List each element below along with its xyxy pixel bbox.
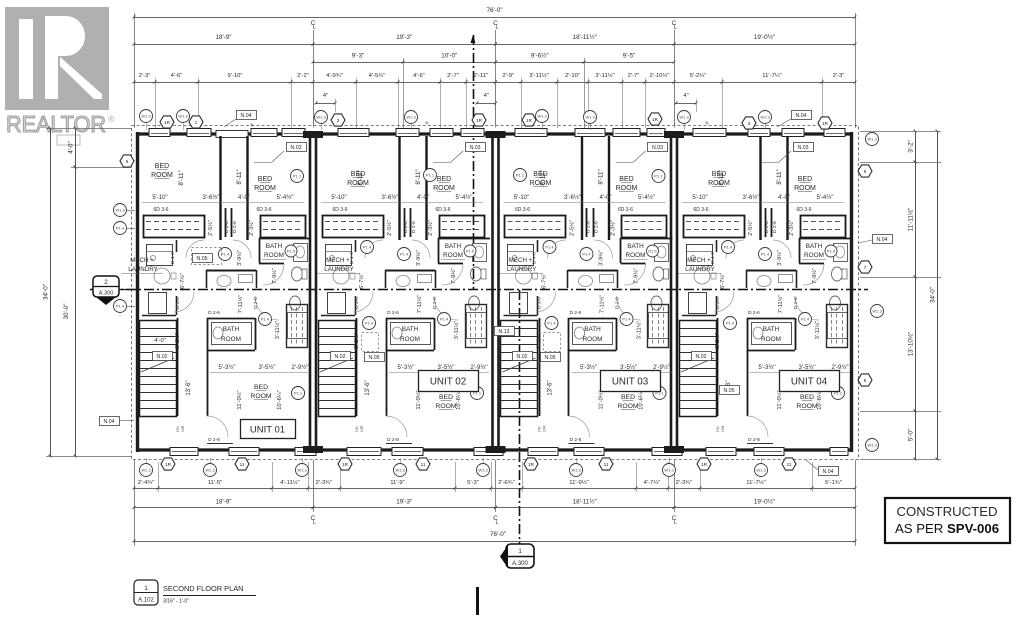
toilet: [292, 267, 303, 281]
svg-text:N.05: N.05: [724, 388, 735, 394]
marker W1.3: [296, 464, 309, 477]
svg-text:3'-11½": 3'-11½": [274, 321, 281, 340]
window: [251, 129, 277, 137]
svg-text:BATH: BATH: [445, 243, 462, 250]
svg-text:2'-5½": 2'-5½": [207, 220, 214, 236]
svg-text:2'-3½": 2'-3½": [610, 220, 617, 236]
marker W1.3: [871, 305, 884, 318]
dimension 5'-1&#190;&quot;: [812, 488, 855, 490]
svg-text:19'-3": 19'-3": [396, 34, 412, 41]
dimension 4'-7&#188;&quot;: [636, 488, 668, 490]
door arcs: [595, 240, 613, 258]
svg-text:3'-2½": 3'-2½": [714, 333, 721, 349]
svg-text:19'-3": 19'-3": [396, 499, 412, 506]
svg-text:2'-3½": 2'-3½": [427, 220, 434, 236]
svg-text:N.04: N.04: [823, 469, 834, 475]
wall top bath: [621, 238, 673, 240]
marker 6: [858, 374, 872, 386]
svg-text:UNIT 03: UNIT 03: [612, 377, 649, 388]
wall mech: [716, 240, 718, 252]
svg-text:P1.4: P1.4: [547, 321, 556, 326]
svg-text:6'-7½": 6'-7½": [179, 273, 186, 289]
svg-text:ROOM: ROOM: [443, 252, 463, 259]
svg-text:6D 3-6: 6D 3-6: [435, 207, 450, 213]
svg-text:5'-10": 5'-10": [514, 195, 529, 201]
marker 11: [416, 458, 430, 470]
wall hall/bedroom: [386, 318, 388, 416]
stairs: [319, 321, 356, 417]
svg-text:1: 1: [195, 120, 198, 125]
svg-text:8'-11": 8'-11": [415, 169, 422, 184]
marker W1.3: [177, 110, 190, 123]
svg-text:N.05: N.05: [369, 355, 380, 361]
svg-text:13'-10½": 13'-10½": [907, 332, 915, 357]
window: [647, 129, 665, 137]
window: [613, 129, 640, 137]
svg-text:2'-7": 2'-7": [447, 73, 459, 79]
svg-text:P1.1: P1.1: [516, 173, 525, 178]
svg-text:9'-3": 9'-3": [352, 53, 365, 60]
svg-text:D 3-0: D 3-0: [175, 297, 181, 309]
dimension 5'-3&quot;: [455, 488, 491, 490]
svg-text:P1.4: P1.4: [116, 304, 125, 309]
svg-text:N.03: N.03: [652, 145, 663, 151]
marker P1.1: [514, 169, 527, 182]
door arcs: [773, 240, 791, 258]
svg-text:P1.4: P1.4: [801, 317, 810, 322]
svg-text:W1.3: W1.3: [867, 137, 877, 142]
svg-text:9'-5": 9'-5": [623, 53, 636, 60]
door frames: [404, 208, 406, 237]
linen closet: [827, 305, 848, 348]
outer wall right: [850, 132, 853, 452]
svg-text:P1.5: P1.5: [466, 249, 475, 254]
marker P1.1: [652, 170, 665, 183]
marker W1.3: [759, 111, 772, 124]
svg-text:ROOM: ROOM: [616, 185, 638, 192]
svg-text:D 2-6: D 2-6: [208, 310, 220, 316]
svg-text:P1.4: P1.4: [582, 252, 591, 257]
svg-text:W1.3: W1.3: [297, 468, 307, 473]
marker 1R: [522, 114, 536, 126]
marker 11: [782, 458, 796, 470]
dimension 19'-3&quot;: [313, 507, 496, 509]
svg-text:P1.4: P1.4: [726, 321, 735, 326]
marker 1R: [648, 113, 662, 125]
svg-text:10'-6¼": 10'-6¼": [277, 390, 283, 410]
svg-text:4'-0": 4'-0": [417, 195, 429, 201]
dimension 2'-10&quot;: [557, 82, 588, 84]
tub: [828, 313, 848, 339]
party wall: [670, 132, 673, 452]
svg-text:BATH: BATH: [223, 326, 240, 333]
dimension 34'-0&quot;: [937, 131, 939, 459]
marker W1.3: [315, 111, 328, 124]
svg-text:CONSTRUCTED: CONSTRUCTED: [896, 504, 997, 519]
window: [295, 448, 316, 456]
svg-text:2'-6¾": 2'-6¾": [498, 480, 515, 486]
svg-text:D 2-6: D 2-6: [570, 310, 582, 316]
dimension 4'-6&quot;: [155, 82, 198, 84]
wall lower bath: [569, 318, 617, 320]
marker 1R: [524, 458, 538, 470]
closet right: [801, 216, 846, 238]
marker 11: [599, 458, 613, 470]
svg-text:2'-7": 2'-7": [628, 73, 640, 79]
svg-text:8'-11": 8'-11": [357, 170, 364, 185]
dimension 3'-2&quot;: [915, 131, 917, 162]
svg-text:W1.3: W1.3: [679, 115, 689, 120]
svg-text:P1.4: P1.4: [761, 252, 770, 257]
svg-text:W1.3: W1.3: [316, 115, 326, 120]
section line 1-A.300 vertical: [473, 35, 475, 290]
svg-text:D 3-0: D 3-0: [715, 297, 721, 309]
window: [461, 129, 484, 137]
svg-text:11'-11½": 11'-11½": [907, 208, 915, 232]
svg-text:P1.4: P1.4: [365, 321, 374, 326]
svg-text:2'-4¾": 2'-4¾": [138, 480, 155, 486]
svg-text:6D 3-6: 6D 3-6: [515, 207, 530, 213]
door frames: [586, 208, 588, 237]
marker 1: [189, 116, 203, 128]
svg-text:ROOM: ROOM: [400, 336, 420, 343]
svg-text:W1.3: W1.3: [585, 115, 595, 120]
svg-text:D 2-6: D 2-6: [594, 221, 600, 233]
svg-text:BED: BED: [798, 176, 812, 183]
svg-text:N.05: N.05: [197, 256, 208, 262]
svg-text:REALTOR: REALTOR: [6, 111, 106, 137]
svg-text:11'-9": 11'-9": [390, 480, 405, 486]
window: [338, 129, 369, 137]
marker 7: [858, 261, 872, 273]
svg-text:5'-3": 5'-3": [467, 480, 479, 486]
svg-text:6D 3-6: 6D 3-6: [693, 207, 708, 213]
dimension 2'-3&#190;&quot;: [668, 488, 700, 490]
dimension 2'-9&quot;: [496, 82, 522, 84]
svg-text:BED: BED: [254, 384, 268, 391]
wall top bath: [259, 238, 311, 240]
svg-text:3'-9½": 3'-9½": [415, 250, 422, 266]
svg-text:3'-6½": 3'-6½": [564, 194, 581, 201]
svg-text:3'-11½": 3'-11½": [636, 321, 643, 340]
svg-text:N.13: N.13: [499, 329, 510, 335]
dimension 18'-11&#189;&quot;: [496, 507, 675, 509]
svg-text:DN: DN: [355, 426, 359, 432]
svg-text:7'-9½": 7'-9½": [271, 268, 278, 284]
svg-text:L: L: [674, 25, 677, 31]
window: [282, 129, 305, 137]
label N.03: [648, 143, 668, 152]
svg-text:W1.3: W1.3: [571, 468, 581, 473]
section line 2-A.300 horizontal: [90, 289, 868, 291]
svg-text:4'-0": 4'-0": [238, 195, 250, 201]
svg-text:N.02: N.02: [157, 354, 168, 360]
window: [187, 129, 211, 137]
svg-text:2'-3½": 2'-3½": [788, 220, 795, 236]
svg-text:1: 1: [144, 585, 148, 592]
dimension 76'-0&quot;: [134, 17, 855, 19]
wall hall bath: [206, 270, 256, 272]
dimension 18'-9&quot;: [134, 507, 313, 509]
svg-text:W1.3: W1.3: [867, 443, 877, 448]
marker W1.3: [394, 464, 407, 477]
svg-text:11: 11: [604, 462, 609, 467]
svg-text:16R: 16R: [543, 425, 547, 432]
marker P1.4: [724, 317, 737, 330]
svg-text:AS PER SPV-006: AS PER SPV-006: [895, 521, 999, 536]
window: [706, 448, 736, 456]
tub: [288, 313, 308, 339]
svg-text:D 2-6: D 2-6: [793, 297, 799, 309]
bath sink counter: [834, 244, 848, 262]
wall mech: [176, 240, 178, 252]
party wall: [309, 132, 312, 452]
svg-text:3'-6½": 3'-6½": [203, 194, 220, 201]
window: [693, 129, 726, 137]
window: [748, 129, 770, 137]
marker P1.4: [398, 248, 411, 261]
marker P1.1: [653, 387, 666, 400]
closet left: [505, 216, 566, 238]
dimension 9'-6&#189;&quot;: [496, 62, 585, 64]
marker P1.4: [219, 248, 232, 261]
dimension 11'-7&#188;&quot;: [722, 82, 822, 84]
svg-text:5'-4½": 5'-4½": [638, 194, 655, 201]
svg-text:5'-4½": 5'-4½": [456, 194, 473, 201]
svg-text:5'-2¼": 5'-2¼": [690, 73, 707, 79]
window: [824, 129, 845, 137]
svg-text:1R: 1R: [165, 462, 172, 467]
window: [347, 448, 381, 456]
marker P1.1: [832, 387, 845, 400]
svg-text:10'-6¼": 10'-6¼": [817, 390, 823, 410]
svg-text:5'-4½": 5'-4½": [817, 194, 834, 201]
svg-text:5'-10": 5'-10": [692, 195, 707, 201]
svg-text:P1.4: P1.4: [622, 317, 631, 322]
svg-text:8'-11": 8'-11": [540, 170, 547, 185]
dimension 19'-0&#189;&quot;: [674, 44, 855, 46]
svg-text:A.102: A.102: [138, 598, 154, 604]
marker W1.3: [570, 464, 583, 477]
svg-text:N.02: N.02: [696, 354, 707, 360]
svg-text:W1.3: W1.3: [760, 115, 770, 120]
svg-text:®: ®: [108, 114, 115, 124]
marker P1.4: [620, 313, 633, 326]
svg-text:7'-11½": 7'-11½": [777, 295, 784, 314]
svg-text:P1.4: P1.4: [363, 245, 372, 250]
svg-text:2'-9": 2'-9": [502, 73, 514, 79]
marker P1.5: [285, 245, 297, 257]
svg-text:3: 3: [337, 118, 340, 123]
svg-text:10'-6¼": 10'-6¼": [639, 390, 645, 410]
wall bedroom divider B: [608, 136, 610, 240]
svg-text:5'-4½": 5'-4½": [277, 194, 294, 201]
svg-text:MECH +: MECH +: [687, 257, 711, 264]
svg-text:P1.4: P1.4: [545, 245, 554, 250]
svg-text:2'-5½": 2'-5½": [569, 220, 576, 236]
dimension 2'-7&quot;: [622, 82, 645, 84]
window: [782, 129, 804, 137]
svg-text:BATH: BATH: [584, 326, 601, 333]
svg-text:P1.4: P1.4: [400, 252, 409, 257]
window: [430, 129, 453, 137]
svg-text:30'-0": 30'-0": [63, 303, 70, 319]
svg-text:3'-2½": 3'-2½": [174, 333, 181, 349]
laundry sink: [333, 268, 349, 284]
svg-text:L: L: [313, 25, 316, 31]
svg-text:L: L: [495, 25, 498, 31]
dimension 9'-5&quot;: [584, 62, 674, 64]
tub: [467, 313, 487, 339]
extension lines left: [46, 128, 132, 130]
svg-text:8'-11": 8'-11": [776, 169, 783, 184]
svg-text:N.04: N.04: [241, 113, 252, 119]
svg-text:1R: 1R: [701, 462, 708, 467]
wall hall/bedroom: [207, 318, 209, 416]
svg-text:BATH: BATH: [763, 326, 780, 333]
svg-text:76'-0": 76'-0": [486, 7, 502, 14]
svg-text:16R: 16R: [181, 425, 185, 432]
marker P1.1: [424, 169, 437, 182]
svg-text:D 2-6: D 2-6: [253, 297, 259, 309]
svg-text:3'-2": 3'-2": [908, 140, 915, 153]
closet right: [622, 216, 667, 238]
label N.05: [541, 353, 561, 362]
svg-text:13'-6": 13'-6": [186, 380, 192, 395]
svg-text:9'-10": 9'-10": [227, 73, 242, 79]
svg-text:ROOM: ROOM: [583, 336, 603, 343]
window: [170, 448, 198, 456]
svg-text:4'-9¾": 4'-9¾": [326, 73, 343, 79]
marker 11: [235, 458, 249, 470]
svg-text:18'-9": 18'-9": [215, 34, 231, 41]
dimension 19'-3&quot;: [313, 44, 496, 46]
wall hall bath: [385, 270, 435, 272]
svg-text:N.02: N.02: [517, 354, 528, 360]
svg-text:1R: 1R: [342, 462, 349, 467]
dimension 11'-7&#189;&quot;: [700, 488, 812, 490]
marker W1.3: [140, 110, 153, 123]
svg-text:BED: BED: [258, 176, 272, 183]
svg-text:19'-0½": 19'-0½": [754, 498, 775, 506]
svg-text:11'-0½": 11'-0½": [598, 390, 605, 409]
svg-text:4": 4": [683, 93, 688, 99]
wall bedroom divider B: [786, 136, 788, 240]
bath sink counter: [655, 244, 669, 262]
marker 1/A.300: [506, 544, 534, 568]
wall mech: [355, 240, 357, 252]
svg-text:4'-5¼": 4'-5¼": [369, 73, 386, 79]
svg-text:BATH: BATH: [627, 243, 644, 250]
svg-text:N.04: N.04: [877, 237, 888, 243]
dimension: [676, 103, 696, 105]
svg-text:3'-6½": 3'-6½": [382, 194, 399, 201]
dimension 3'-11&#189;&quot;: [588, 82, 622, 84]
svg-text:BED: BED: [439, 394, 453, 401]
svg-text:LAUNDRY: LAUNDRY: [324, 266, 353, 273]
svg-text:7: 7: [864, 265, 867, 270]
svg-text:D 4-0: D 4-0: [710, 252, 716, 264]
svg-text:BATH: BATH: [402, 326, 419, 333]
marker P1.1: [292, 387, 305, 400]
label N.03: [466, 143, 486, 152]
svg-text:ROOM: ROOM: [626, 252, 646, 259]
svg-text:LAUNDRY: LAUNDRY: [507, 266, 536, 273]
svg-text:5'-3½": 5'-3½": [759, 364, 776, 371]
svg-text:2'-10": 2'-10": [565, 73, 580, 79]
toilet lower: [290, 296, 301, 310]
svg-text:1: 1: [518, 548, 522, 555]
svg-text:BED: BED: [621, 394, 635, 401]
washer dryer: [508, 245, 534, 266]
bath sink counter: [294, 244, 308, 262]
marker P1.4: [114, 300, 127, 313]
svg-text:W1.3: W1.3: [537, 114, 547, 119]
svg-text:6: 6: [864, 378, 867, 383]
svg-text:D 2-8: D 2-8: [224, 221, 230, 233]
svg-text:3'-2½": 3'-2½": [536, 333, 543, 349]
svg-text:11: 11: [787, 462, 792, 467]
toilet lower: [469, 296, 480, 310]
svg-text:5'-3½": 5'-3½": [398, 364, 415, 371]
svg-text:D 2-6: D 2-6: [615, 297, 621, 309]
svg-text:W1.3: W1.3: [664, 468, 674, 473]
toilet: [471, 267, 482, 281]
dimension 9'-3&quot;: [313, 62, 403, 64]
dimension 11'-9&#189;&quot;: [522, 488, 636, 490]
linen closet: [466, 305, 487, 348]
label N.04: [873, 235, 893, 244]
label N.04: [819, 467, 839, 476]
marker P1.4: [545, 317, 558, 330]
dimension 2'-10&#189;&quot;: [645, 82, 674, 84]
title block: [134, 580, 158, 605]
svg-text:4'-11½": 4'-11½": [280, 479, 299, 486]
svg-text:7'-11½": 7'-11½": [416, 295, 423, 314]
closet right: [261, 216, 306, 238]
svg-text:8'-11": 8'-11": [718, 170, 725, 185]
door arcs: [412, 240, 430, 258]
svg-text:W1.3: W1.3: [178, 114, 188, 119]
party wall: [491, 132, 494, 452]
window: [575, 129, 605, 137]
svg-text:P1.1: P1.1: [654, 174, 663, 179]
svg-text:D 2-6: D 2-6: [411, 221, 417, 233]
svg-text:ROOM: ROOM: [794, 185, 816, 192]
label N.04: [792, 111, 812, 120]
window: [528, 448, 558, 456]
svg-text:MECH +: MECH +: [130, 257, 154, 264]
svg-text:UNIT 02: UNIT 02: [430, 377, 466, 388]
svg-text:6D 3-6: 6D 3-6: [332, 207, 347, 213]
svg-text:ROOM: ROOM: [264, 252, 284, 259]
dimension 13'-10&#189;&quot;: [915, 277, 917, 411]
svg-text:LAUNDRY: LAUNDRY: [128, 266, 157, 273]
laundry sink: [154, 268, 170, 284]
REALTOR logo: [5, 7, 115, 137]
stairs: [680, 321, 717, 417]
svg-text:D 2-6: D 2-6: [232, 221, 238, 233]
svg-text:BED: BED: [800, 394, 814, 401]
svg-text:N.02: N.02: [335, 354, 346, 360]
marker P1.4: [259, 313, 272, 326]
svg-text:6D 3-6: 6D 3-6: [256, 207, 271, 213]
svg-text:8'-11": 8'-11": [236, 169, 243, 184]
dimension 4'-9&#190;&quot;: [313, 82, 356, 84]
label N.05: [365, 353, 385, 362]
svg-text:ROOM: ROOM: [804, 252, 824, 259]
extension lines right: [860, 131, 941, 133]
